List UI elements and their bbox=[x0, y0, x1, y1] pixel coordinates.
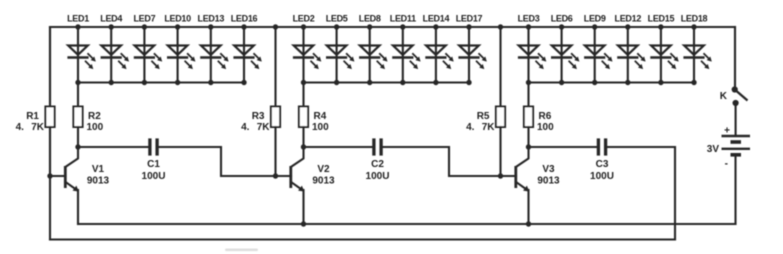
LED LED14 bbox=[423, 14, 454, 83]
junction: LED12 anode on top rail bbox=[625, 24, 630, 29]
LED LED17 bbox=[456, 14, 487, 83]
junction: V2 base node bbox=[273, 173, 278, 178]
svg-text:LED3: LED3 bbox=[518, 14, 540, 24]
switch K bbox=[720, 86, 748, 136]
svg-text:LED15: LED15 bbox=[648, 14, 675, 24]
LED LED5 bbox=[326, 14, 355, 83]
transistor V1 9013 bbox=[65, 147, 109, 224]
junction: V1 collector node bbox=[75, 144, 80, 149]
LED LED18 bbox=[681, 14, 712, 83]
svg-text:100: 100 bbox=[537, 122, 554, 133]
wire: feedback right vertical (bottom rail up to C3 output) bbox=[674, 147, 676, 240]
junction: LED7 cathode on bus bbox=[142, 80, 147, 85]
wire: R5 top lead bbox=[499, 27, 501, 107]
transistor V3 9013 bbox=[516, 147, 560, 224]
svg-text:V3: V3 bbox=[542, 164, 555, 175]
svg-text:100: 100 bbox=[312, 122, 329, 133]
junction: LED7 anode on top rail bbox=[142, 24, 147, 29]
junction: LED4 anode on top rail bbox=[109, 24, 114, 29]
resistor R6 100 bbox=[524, 107, 554, 134]
junction: LED1 cathode on bus bbox=[75, 80, 80, 85]
junction: LED10 anode on top rail bbox=[175, 24, 180, 29]
junction: V2 collector node bbox=[301, 144, 306, 149]
LED LED11 bbox=[390, 14, 421, 83]
resistor R2 100 bbox=[73, 107, 103, 134]
wire: +3V top rail bbox=[50, 26, 735, 28]
svg-text:LED12: LED12 bbox=[615, 14, 642, 24]
svg-text:LED17: LED17 bbox=[456, 14, 483, 24]
svg-text:R2: R2 bbox=[88, 111, 101, 122]
svg-text:R6: R6 bbox=[539, 111, 552, 122]
svg-text:LED9: LED9 bbox=[584, 14, 606, 24]
junction: V2 emitter on ground rail bbox=[301, 221, 306, 226]
wire: left branch from top rail down to R1 bbox=[49, 27, 51, 107]
junction: LED13 cathode on bus bbox=[208, 80, 213, 85]
svg-text:V2: V2 bbox=[317, 164, 330, 175]
wire: C3 output route bbox=[606, 146, 675, 148]
wire: R1 bottom lead bbox=[49, 127, 51, 176]
wire: V1 base lead bbox=[50, 175, 66, 177]
transistor V2 9013 bbox=[291, 147, 335, 224]
LED LED6 bbox=[551, 14, 580, 83]
LED LED8 bbox=[359, 14, 388, 83]
junction: V1 base node bbox=[47, 173, 52, 178]
junction: R3 tap on top rail bbox=[273, 24, 278, 29]
junction: LED11 anode on top rail bbox=[400, 24, 405, 29]
wire: R6 bottom lead bbox=[527, 127, 529, 147]
resistor R4 100 bbox=[299, 107, 329, 134]
LED LED1 bbox=[67, 14, 96, 83]
junction: LED15 cathode on bus bbox=[658, 80, 663, 85]
wire: R5 bottom lead bbox=[499, 127, 501, 176]
wire: R2 bottom lead bbox=[77, 127, 79, 147]
LED LED10 bbox=[164, 14, 195, 83]
svg-text:100U: 100U bbox=[142, 171, 166, 182]
svg-text:C1: C1 bbox=[147, 159, 160, 170]
wire: bottom feedback rail (C3 to V1 base) bbox=[50, 238, 675, 240]
junction: LED2 anode on top rail bbox=[301, 24, 306, 29]
wire: feedback left vertical (V1 base node down to bottom rail) bbox=[49, 176, 51, 240]
svg-text:LED16: LED16 bbox=[231, 14, 258, 24]
svg-text:100U: 100U bbox=[366, 171, 390, 182]
junction: LED3 anode on top rail bbox=[526, 24, 531, 29]
svg-text:LED14: LED14 bbox=[423, 14, 450, 24]
svg-text:LED6: LED6 bbox=[551, 14, 573, 24]
battery 3V bbox=[707, 126, 750, 170]
svg-text:LED10: LED10 bbox=[164, 14, 191, 24]
junction: LED10 cathode on bus bbox=[175, 80, 180, 85]
junction: LED6 cathode on bus bbox=[559, 80, 564, 85]
junction: LED8 cathode on bus bbox=[367, 80, 372, 85]
wire: cathode bus for LED1 group bbox=[78, 81, 244, 83]
junction: LED8 anode on top rail bbox=[367, 24, 372, 29]
junction: V3 base node bbox=[498, 173, 503, 178]
wire: R3 bottom lead bbox=[274, 127, 276, 176]
junction: LED17 cathode on bus bbox=[466, 80, 471, 85]
svg-text:LED7: LED7 bbox=[133, 14, 155, 24]
svg-text:K: K bbox=[720, 91, 728, 102]
svg-text:LED5: LED5 bbox=[326, 14, 348, 24]
svg-text:4. 7K: 4. 7K bbox=[466, 122, 495, 133]
svg-text:LED4: LED4 bbox=[100, 14, 122, 24]
junction: LED16 cathode on bus bbox=[241, 80, 246, 85]
junction: LED18 anode on top rail bbox=[691, 24, 696, 29]
wire: emitter ground rail bbox=[78, 223, 736, 225]
junction: LED1 anode on top rail bbox=[75, 24, 80, 29]
junction: LED5 anode on top rail bbox=[334, 24, 339, 29]
junction: LED12 cathode on bus bbox=[625, 80, 630, 85]
LED LED3 bbox=[518, 14, 547, 83]
faint scan smudge at bottom bbox=[225, 249, 258, 252]
junction: LED15 anode on top rail bbox=[658, 24, 663, 29]
svg-text:100U: 100U bbox=[590, 171, 614, 182]
svg-text:R1: R1 bbox=[26, 111, 39, 122]
junction: LED5 cathode on bus bbox=[334, 80, 339, 85]
junction: LED9 cathode on bus bbox=[592, 80, 597, 85]
capacitor C2 100U bbox=[366, 138, 390, 182]
wire: switch to battery positive bbox=[735, 103, 737, 136]
wire: cathode bus for LED3 group bbox=[529, 81, 695, 83]
wire: C2 output route bbox=[381, 147, 500, 176]
capacitor C3 100U bbox=[590, 138, 614, 182]
junction: V3 collector node bbox=[526, 144, 531, 149]
junction: LED3 cathode on bus bbox=[526, 80, 531, 85]
svg-text:LED1: LED1 bbox=[67, 14, 89, 24]
svg-text:C2: C2 bbox=[371, 159, 384, 170]
junction: LED11 cathode on bus bbox=[400, 80, 405, 85]
LED LED16 bbox=[231, 14, 262, 83]
svg-text:3V: 3V bbox=[707, 144, 720, 155]
junction: LED13 anode on top rail bbox=[208, 24, 213, 29]
LED LED2 bbox=[293, 14, 322, 83]
LED LED9 bbox=[584, 14, 613, 83]
junction: LED17 anode on top rail bbox=[466, 24, 471, 29]
wire: R4 bottom lead bbox=[302, 127, 304, 147]
junction: LED18 cathode on bus bbox=[691, 80, 696, 85]
svg-text:100: 100 bbox=[87, 122, 104, 133]
resistor R5 4. 7K bbox=[466, 107, 505, 134]
svg-text:R4: R4 bbox=[314, 111, 327, 122]
svg-text:C3: C3 bbox=[596, 159, 609, 170]
svg-text:LED8: LED8 bbox=[359, 14, 381, 24]
LED LED12 bbox=[615, 14, 646, 83]
wire: C2 left lead bbox=[304, 146, 374, 148]
wire: battery negative lead down to emitter rail bbox=[734, 155, 736, 224]
svg-text:R5: R5 bbox=[477, 111, 490, 122]
LED LED4 bbox=[100, 14, 129, 83]
wire: R1 top lead bbox=[49, 27, 51, 107]
wire: C3 left lead bbox=[529, 146, 599, 148]
svg-text:-: - bbox=[725, 159, 728, 170]
wire: V2 base lead bbox=[276, 175, 292, 177]
resistor R3 4. 7K bbox=[241, 107, 280, 134]
wire: R4 top lead bbox=[302, 83, 304, 107]
junction: LED14 cathode on bus bbox=[433, 80, 438, 85]
wire: cathode bus for LED2 group bbox=[304, 81, 470, 83]
junction: LED2 cathode on bus bbox=[301, 80, 306, 85]
wire: R2 top lead bbox=[77, 83, 79, 107]
wire: R3 top lead bbox=[274, 27, 276, 107]
junction: LED16 anode on top rail bbox=[241, 24, 246, 29]
wire: V3 base lead bbox=[501, 175, 517, 177]
wire: top rail down to switch K bbox=[734, 27, 736, 88]
junction: V3 emitter on ground rail bbox=[526, 221, 531, 226]
LED LED13 bbox=[198, 14, 229, 83]
capacitor C1 100U bbox=[142, 138, 166, 182]
svg-text:LED18: LED18 bbox=[681, 14, 708, 24]
svg-text:4. 7K: 4. 7K bbox=[241, 122, 270, 133]
wire: C1 left lead bbox=[78, 146, 150, 148]
LED LED15 bbox=[648, 14, 679, 83]
svg-text:LED2: LED2 bbox=[293, 14, 315, 24]
svg-text:V1: V1 bbox=[92, 164, 105, 175]
junction: LED14 anode on top rail bbox=[433, 24, 438, 29]
LED LED7 bbox=[133, 14, 162, 83]
junction: LED4 cathode on bus bbox=[109, 80, 114, 85]
svg-text:LED13: LED13 bbox=[198, 14, 225, 24]
svg-text:R3: R3 bbox=[252, 111, 265, 122]
svg-text:9013: 9013 bbox=[537, 176, 560, 187]
wire: C1 output route bbox=[157, 147, 275, 176]
junction: R5 tap on top rail bbox=[498, 24, 503, 29]
wire: R1 bottom to V1 base node bbox=[49, 127, 51, 176]
junction: LED9 anode on top rail bbox=[592, 24, 597, 29]
svg-text:9013: 9013 bbox=[87, 176, 110, 187]
resistor R1 4. 7K bbox=[16, 107, 55, 134]
svg-text:4. 7K: 4. 7K bbox=[16, 122, 45, 133]
svg-text:LED11: LED11 bbox=[390, 14, 416, 24]
junction: LED6 anode on top rail bbox=[559, 24, 564, 29]
svg-text:9013: 9013 bbox=[312, 176, 335, 187]
wire: R6 top lead bbox=[527, 83, 529, 107]
